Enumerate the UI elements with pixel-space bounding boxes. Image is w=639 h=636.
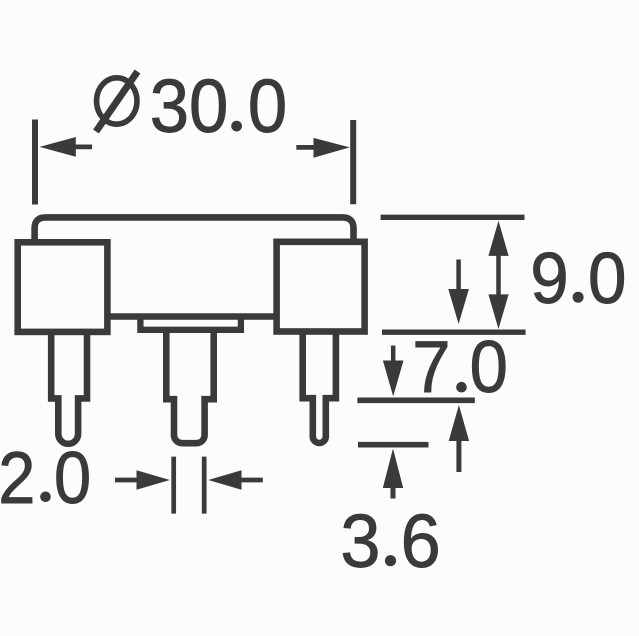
svg-text:30.0: 30.0 — [150, 64, 287, 148]
svg-text:9.0: 9.0 — [530, 238, 626, 319]
svg-text:7.0: 7.0 — [412, 327, 508, 408]
svg-text:3.6: 3.6 — [340, 499, 440, 583]
svg-text:2.0: 2.0 — [0, 438, 91, 519]
